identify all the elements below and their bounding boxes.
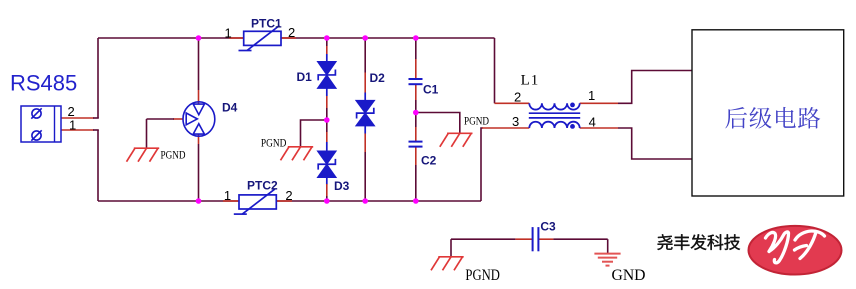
svg-text:C2: C2 <box>421 153 437 167</box>
svg-text:3: 3 <box>512 114 519 129</box>
svg-text:PTC1: PTC1 <box>251 17 282 31</box>
svg-text:4: 4 <box>589 115 596 130</box>
svg-text:PTC2: PTC2 <box>247 178 278 192</box>
svg-text:PGND: PGND <box>464 114 489 128</box>
svg-text:PGND: PGND <box>161 148 186 162</box>
svg-text:D2: D2 <box>370 71 386 85</box>
svg-text:2: 2 <box>285 188 292 203</box>
svg-text:GND: GND <box>612 267 646 284</box>
svg-text:1: 1 <box>69 118 76 133</box>
svg-text:C3: C3 <box>540 219 556 233</box>
svg-text:D3: D3 <box>334 179 350 193</box>
svg-text:L1: L1 <box>521 73 540 89</box>
svg-text:PGND: PGND <box>465 267 500 284</box>
svg-text:1: 1 <box>588 88 595 103</box>
svg-text:1: 1 <box>224 188 231 203</box>
svg-text:D4: D4 <box>222 101 238 115</box>
svg-text:PGND: PGND <box>261 135 287 149</box>
svg-text:RS485: RS485 <box>10 71 77 96</box>
svg-text:D1: D1 <box>297 70 313 84</box>
svg-text:1: 1 <box>225 26 232 41</box>
svg-text:2: 2 <box>514 89 521 104</box>
svg-text:C1: C1 <box>423 83 439 97</box>
svg-text:2: 2 <box>288 25 295 40</box>
